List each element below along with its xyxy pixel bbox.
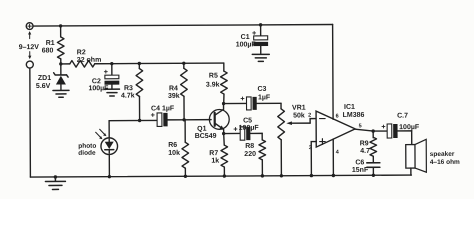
resistor R2 — [61, 49, 112, 67]
svg-text:BC549: BC549 — [195, 133, 217, 140]
node R8 bottom — [261, 174, 264, 177]
transistor Q1 — [195, 104, 230, 140]
svg-text:VR1: VR1 — [292, 105, 306, 112]
light arrows into photo diode — [96, 129, 107, 139]
node output — [371, 129, 374, 132]
svg-text:R6: R6 — [168, 142, 177, 149]
svg-text:R9: R9 — [360, 140, 369, 147]
node emitter — [222, 132, 225, 135]
svg-text:C.7: C.7 — [397, 113, 408, 120]
svg-text:Q1: Q1 — [197, 126, 206, 133]
svg-text:100µF: 100µF — [236, 41, 257, 48]
ground below ZD1 — [53, 90, 69, 97]
svg-text:39k: 39k — [168, 93, 180, 100]
wire C4 to base — [184, 119, 211, 121]
node pin3 ground — [310, 174, 313, 177]
svg-text:5.6V: 5.6V — [36, 83, 51, 90]
node R1 top — [59, 24, 62, 27]
svg-text:C5: C5 — [243, 117, 252, 124]
wire photodiode node to C4 — [109, 119, 156, 121]
svg-text:15nF: 15nF — [352, 167, 369, 174]
svg-text:diode: diode — [78, 150, 96, 157]
zener ZD1 — [36, 64, 68, 90]
ground below C1 — [252, 54, 269, 61]
svg-text:R3: R3 — [124, 85, 133, 92]
wire pin 4 to ground rail — [332, 139, 334, 175]
svg-text:2: 2 — [308, 113, 311, 119]
svg-text:C2: C2 — [92, 78, 101, 85]
node R6 bottom — [184, 175, 187, 178]
svg-text:C3: C3 — [257, 86, 266, 93]
resistor R3 — [121, 63, 143, 120]
svg-text:1µF: 1µF — [258, 94, 271, 101]
ground below C2 — [104, 89, 119, 96]
node VR1 bottom — [280, 174, 283, 177]
svg-text:R7: R7 — [209, 150, 218, 157]
node R3 top — [138, 62, 141, 65]
terminal - (9-12V input negative) — [26, 61, 33, 68]
svg-text:680: 680 — [42, 47, 54, 54]
svg-text:LM386: LM386 — [343, 112, 365, 119]
capacitor C5 — [224, 117, 263, 140]
svg-text:220: 220 — [244, 151, 256, 158]
svg-text:4.7k: 4.7k — [121, 93, 135, 100]
resistor R9 — [360, 131, 377, 162]
wire output pin 5 — [355, 129, 387, 131]
svg-text:R2: R2 — [77, 49, 86, 56]
wire pin 3 to ground rail — [311, 142, 316, 176]
capacitor C2 — [88, 64, 119, 93]
wire pin 6 supply — [332, 24, 334, 119]
wire top rail — [33, 24, 333, 26]
wire left side down from - terminal — [29, 68, 32, 177]
terminal + (9-12V input positive) — [26, 23, 33, 30]
node pin4 ground — [332, 174, 335, 177]
svg-text:100µF: 100µF — [239, 125, 260, 132]
node C1 top — [259, 23, 262, 26]
node R4 bottom / base node — [182, 118, 185, 121]
svg-text:C4 1µF: C4 1µF — [151, 105, 175, 112]
svg-text:3.9k: 3.9k — [206, 82, 220, 89]
node R3 bottom — [138, 119, 141, 122]
capacitor C3 — [224, 86, 282, 110]
capacitor C4 — [151, 105, 184, 126]
node R4 top — [182, 62, 185, 65]
svg-text:4–16 ohm: 4–16 ohm — [430, 159, 460, 166]
capacitor C7 — [382, 113, 420, 138]
svg-text:6: 6 — [336, 113, 339, 119]
svg-text:R8: R8 — [245, 143, 254, 150]
node ground tap on bottom rail — [54, 175, 57, 178]
node collector — [222, 102, 225, 105]
capacitor C1 — [236, 25, 269, 54]
node R7 bottom — [223, 174, 226, 177]
svg-text:22 ohm: 22 ohm — [77, 57, 102, 64]
potentiometer VR1 — [278, 103, 317, 176]
resistor R5 — [206, 63, 228, 104]
svg-text:C6: C6 — [355, 159, 364, 166]
resistor R6 — [168, 120, 189, 177]
svg-text:5: 5 — [359, 123, 362, 129]
svg-text:9–12V: 9–12V — [19, 44, 40, 51]
speaker LS1 — [406, 139, 460, 175]
node photodiode bottom — [108, 175, 111, 178]
svg-text:C1: C1 — [241, 34, 250, 41]
svg-text:100µF: 100µF — [399, 124, 420, 131]
wire C7 to speaker — [411, 131, 413, 145]
resistor R4 — [168, 63, 188, 120]
photo diode D1 — [78, 121, 118, 177]
op-amp IC1 LM386 — [308, 104, 365, 156]
svg-text:ZD1: ZD1 — [38, 75, 51, 82]
node C2 top — [110, 62, 113, 65]
svg-text:1k: 1k — [211, 158, 219, 165]
svg-text:speaker: speaker — [430, 151, 455, 158]
ground main — [45, 177, 65, 190]
svg-text:IC1: IC1 — [344, 104, 355, 111]
resistor R1 — [42, 26, 64, 64]
resistor R7 — [209, 134, 228, 177]
svg-text:50k: 50k — [293, 112, 305, 119]
svg-text:10k: 10k — [168, 150, 180, 157]
node R1/R2/ZD1 junction — [59, 62, 62, 65]
arrow up to + terminal — [28, 31, 31, 39]
wire bottom rail — [30, 175, 411, 177]
svg-text:R5: R5 — [209, 73, 218, 80]
svg-text:4.7: 4.7 — [360, 148, 370, 155]
resistor R8 — [244, 133, 266, 176]
svg-text:R1: R1 — [46, 40, 55, 47]
svg-text:R4: R4 — [169, 85, 178, 92]
node C6 bottom — [372, 174, 375, 177]
wire bias rail to R5 — [112, 62, 224, 65]
arrow down to - terminal — [28, 52, 31, 60]
capacitor C6 — [352, 159, 380, 175]
